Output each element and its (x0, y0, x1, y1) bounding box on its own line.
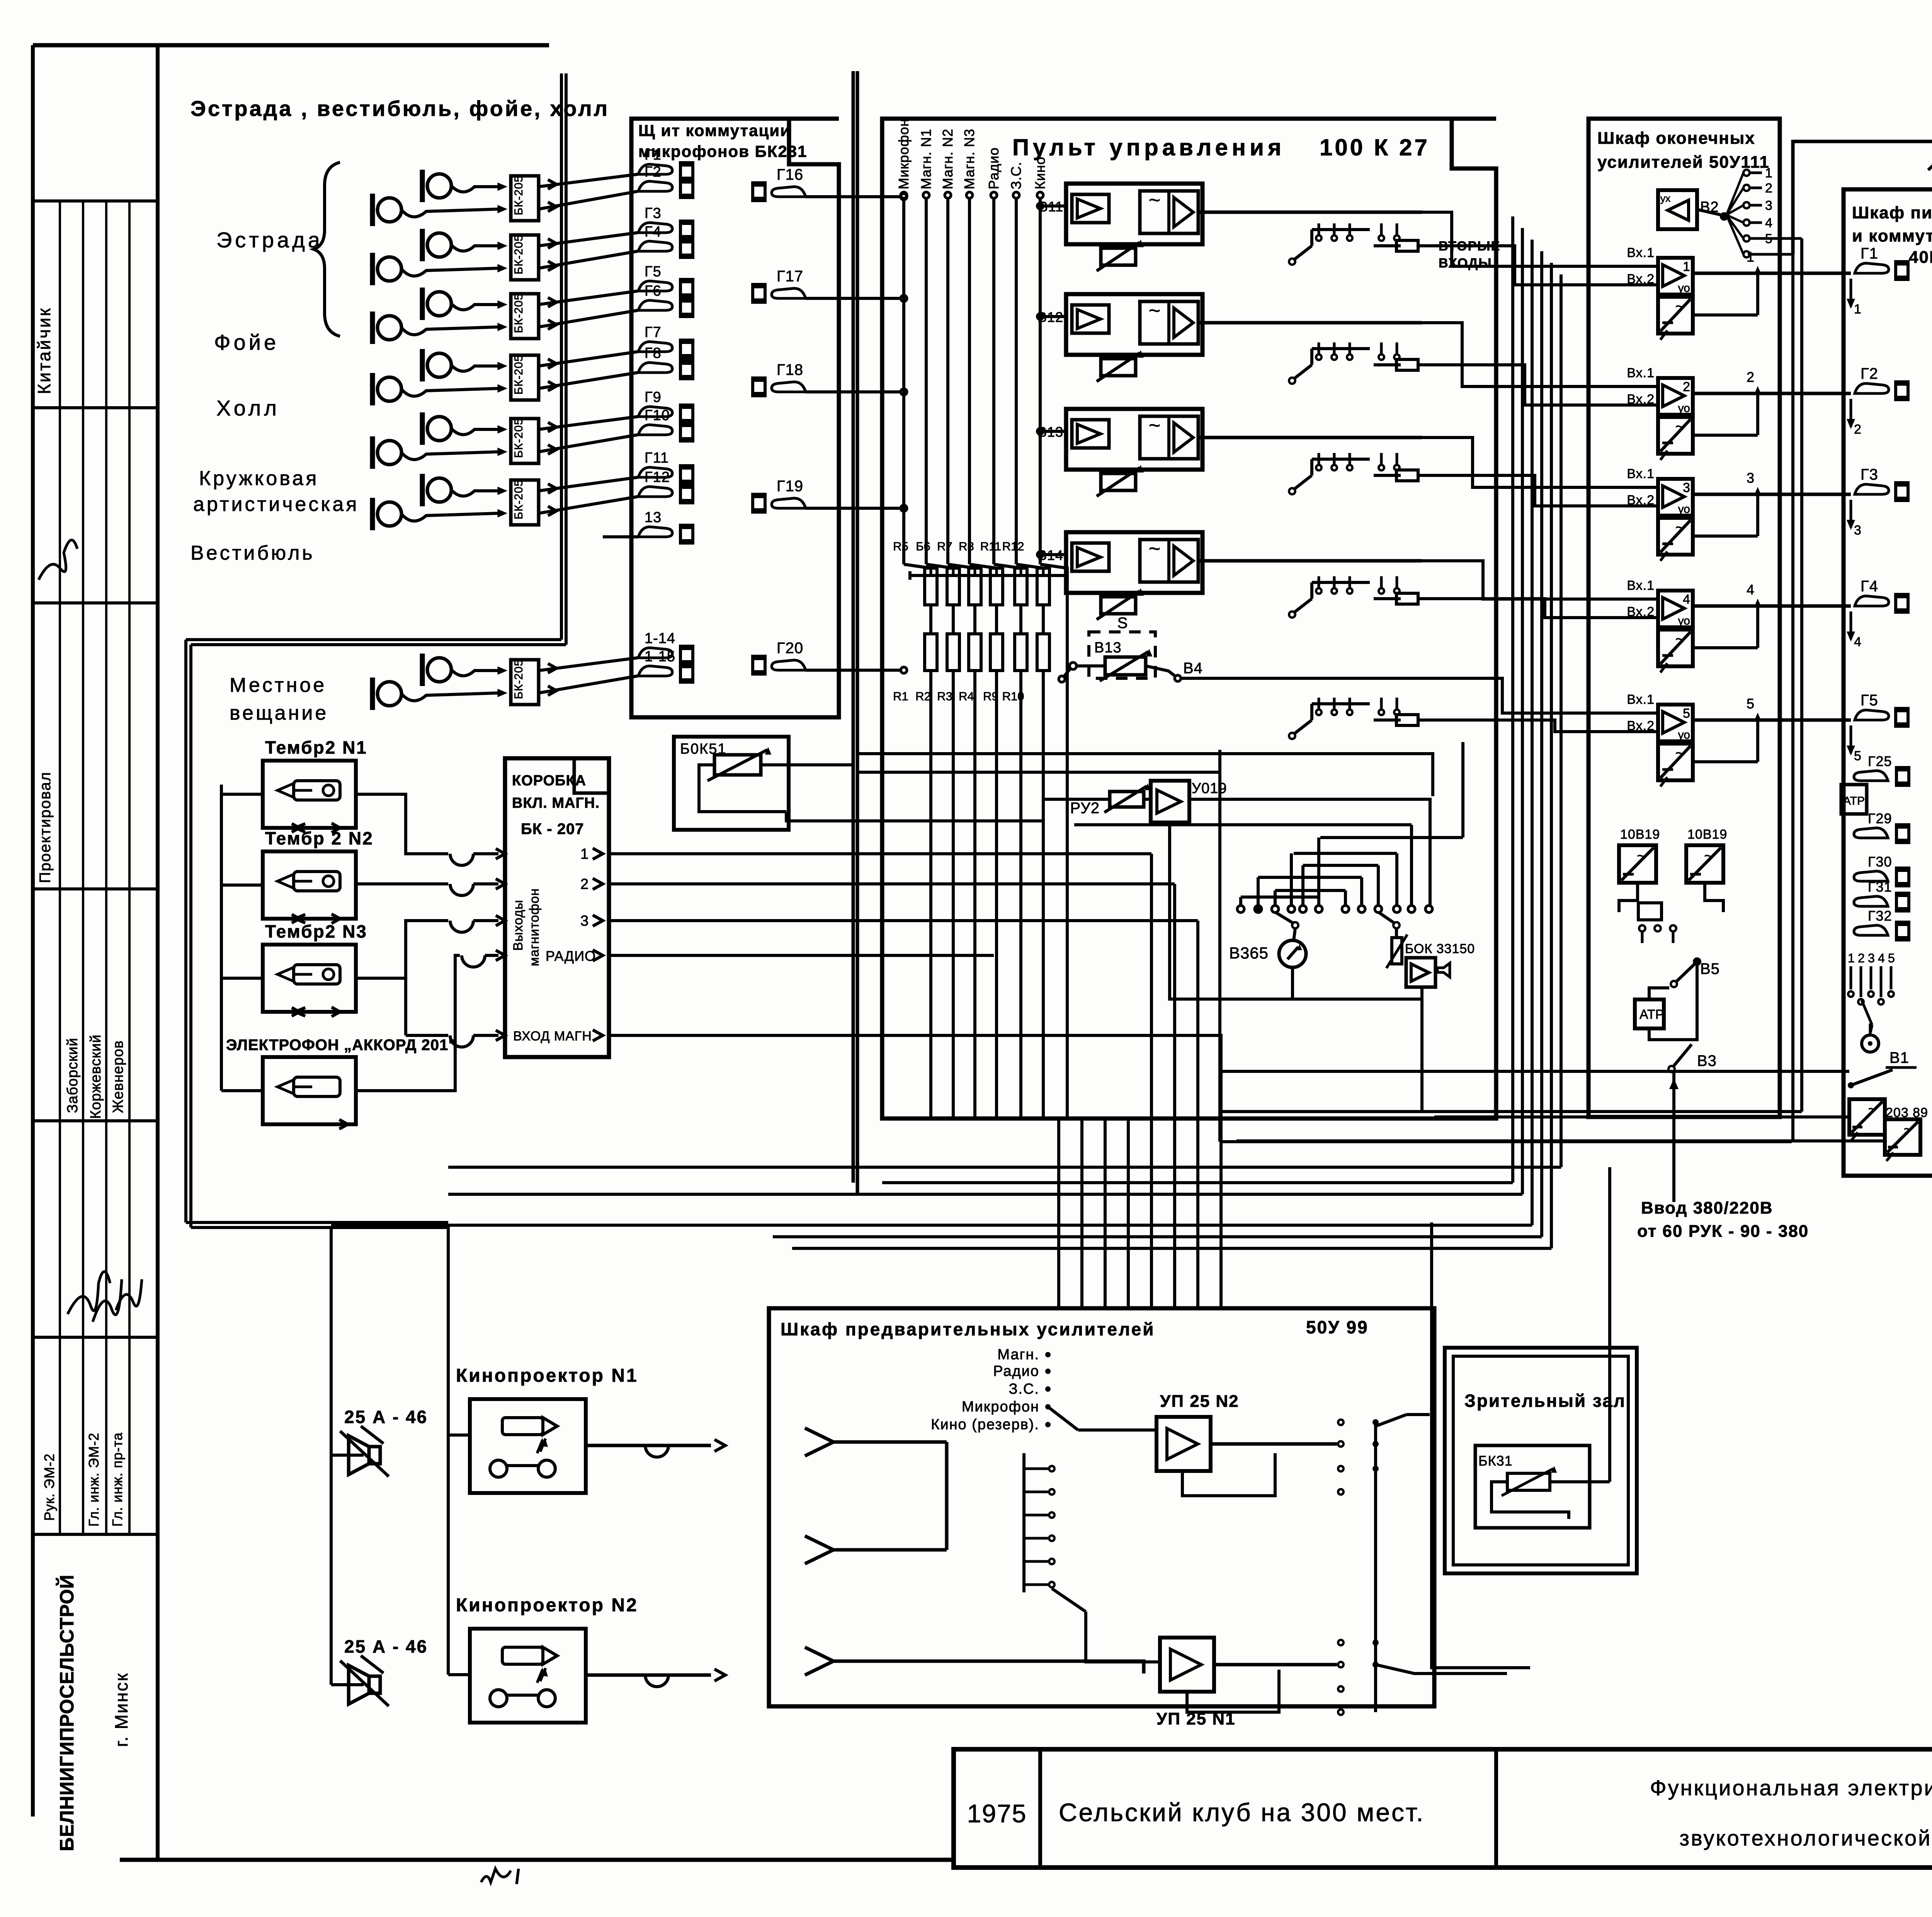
wire BK-205 #1 out2 to Г2 (539, 191, 638, 209)
svg-text:~: ~ (1704, 848, 1713, 865)
svg-text:ВТОРЫЕ: ВТОРЫЕ (1439, 239, 1500, 254)
wire harness horizontal returns (882, 1181, 1513, 1184)
power amplifier stage 3 (1658, 479, 1693, 516)
svg-text:1-15: 1-15 (645, 649, 675, 665)
svg-text:Г16: Г16 (777, 166, 803, 183)
connector Г12 (638, 487, 672, 497)
svg-text:Щ ит коммутации: Щ ит коммутации (638, 121, 791, 140)
wire BK-205 #1 out1 to Г1 (539, 174, 638, 187)
svg-text:Г4: Г4 (645, 224, 662, 240)
svg-text:50У 99: 50У 99 (1306, 1317, 1369, 1337)
connection box BK-205 #5 (511, 419, 539, 463)
transformer 10V19 #2 (1686, 845, 1723, 883)
wire BK-205 #2 out1 to Г3 (539, 233, 638, 246)
variable attenuator BOK33150 (1395, 928, 1398, 938)
svg-text:Зрительный зал: Зрительный зал (1464, 1391, 1626, 1411)
svg-text:усилителей 50У111: усилителей 50У111 (1597, 153, 1770, 172)
microphone pair 5 lower (378, 441, 401, 465)
svg-text:40К-37: 40К-37 (1909, 248, 1932, 267)
svg-text:Радио: Радио (986, 147, 1002, 189)
level control for В13 (1101, 473, 1136, 490)
svg-text:Г32: Г32 (1868, 908, 1892, 924)
wire В11 output (1198, 211, 1310, 214)
svg-text:R4: R4 (959, 690, 974, 703)
wire harness channel outputs to vkh1 (1198, 211, 1422, 214)
connector Г5 (1855, 710, 1889, 720)
variable resistor B13 (1105, 657, 1146, 675)
svg-text:В1: В1 (1889, 1049, 1909, 1066)
stamp column row dividers (33, 199, 158, 203)
common line of resistor network (910, 574, 1066, 577)
box Shkaf okonechnykh usiliteley 50U111 (1588, 119, 1780, 1117)
svg-text:ВКЛ. МАГН.: ВКЛ. МАГН. (512, 795, 600, 811)
svg-text:Г12: Г12 (645, 469, 670, 485)
connector Г20 (751, 655, 767, 676)
stage 2 input wires (1584, 385, 1658, 388)
switch B3 (1673, 1044, 1692, 1067)
svg-text:уо: уо (1678, 402, 1690, 415)
svg-text:Тембр 2 N2: Тембр 2 N2 (265, 828, 374, 848)
wire U019 output (1189, 799, 1430, 906)
svg-text:Тембр2 N3: Тембр2 N3 (265, 921, 367, 941)
svg-text:5: 5 (1765, 232, 1772, 246)
svg-text:Г7: Г7 (645, 324, 662, 340)
label B4 (1146, 666, 1175, 676)
svg-text:Г4: Г4 (1861, 578, 1878, 595)
svg-text:Г5: Г5 (645, 264, 662, 280)
svg-text:Г2: Г2 (1861, 365, 1878, 382)
wire verticals pult bottom to predv box (1057, 1119, 1060, 1308)
wire BOK33150 bottom (1220, 987, 1422, 1112)
tape recorder box Тембр2 N1 (263, 761, 356, 828)
svg-text:БК-205: БК-205 (512, 175, 525, 215)
connector Г6 (638, 300, 672, 310)
svg-text:ВХОДЫ: ВХОДЫ (1439, 256, 1492, 271)
microphone pair 4 upper (427, 353, 451, 377)
svg-text:и коммутации: и коммутации (1852, 226, 1932, 245)
wire Tembr N3 to BK-207 input 3 (356, 921, 448, 978)
connector Г1 (638, 164, 672, 174)
svg-text:Микрофон: Микрофон (962, 1399, 1039, 1415)
input antenna symbols (805, 1428, 833, 1456)
svg-text:микрофонов БК231: микрофонов БК231 (638, 142, 807, 160)
svg-text:10В19: 10В19 (1620, 827, 1660, 842)
wire B0K51 loop (699, 765, 786, 812)
wire UX to B2 (1697, 209, 1721, 215)
svg-text:2: 2 (1747, 369, 1754, 385)
svg-text:S: S (1117, 615, 1128, 632)
connector Г17 (751, 283, 767, 304)
svg-text:~: ~ (1904, 1121, 1912, 1137)
svg-text:1975: 1975 (967, 1799, 1027, 1828)
svg-text:ух: ух (1660, 192, 1670, 204)
UP25 feedback wires (1182, 1453, 1275, 1496)
brace for Estrada group (314, 162, 340, 336)
UP25N1 output (1214, 1663, 1337, 1667)
microphone pair 7 lower (378, 682, 401, 706)
film symbol in Кинопроектор N1 (502, 1418, 543, 1435)
svg-text:Китайчик: Китайчик (34, 307, 54, 394)
connector Г1 (1855, 263, 1889, 273)
svg-text:РУ2: РУ2 (1070, 800, 1100, 817)
meter B365 (1294, 928, 1295, 941)
level control for В11 (1101, 248, 1136, 265)
amplifier UP25 N1 (1160, 1638, 1214, 1692)
svg-text:Магн.: Магн. (997, 1347, 1039, 1363)
ATR box in pitaniya (1841, 785, 1867, 814)
box Кинопроектор N1 (470, 1399, 586, 1493)
svg-text:25 А - 46: 25 А - 46 (344, 1636, 428, 1657)
wire BK-205 #7 out2 to 1-15 (539, 676, 638, 693)
connector 1-14 (638, 648, 672, 658)
box Shkaf predvaritelnykh usiliteley 50U99 (769, 1308, 1434, 1706)
svg-text:Г29: Г29 (1868, 810, 1892, 826)
power supply stage 1 (1658, 297, 1693, 334)
svg-text:магнитофон: магнитофон (527, 888, 542, 966)
svg-text:100 К 27: 100 К 27 (1320, 134, 1430, 160)
channel amplifier block В12 (1066, 294, 1202, 355)
stage 2 output arrow (1756, 390, 1759, 435)
svg-text:Вх.1: Вх.1 (1627, 578, 1655, 593)
svg-text:Г9: Г9 (645, 389, 662, 405)
inner box BK31 (1475, 1445, 1590, 1528)
svg-text:4: 4 (1765, 216, 1772, 230)
speaker 25A-46 #1 (369, 1447, 380, 1464)
wire stub to 13 (603, 535, 638, 538)
svg-text:1-14: 1-14 (645, 630, 675, 647)
svg-text:~: ~ (1149, 189, 1160, 211)
svg-text:вещание: вещание (230, 702, 328, 724)
svg-text:3: 3 (1868, 951, 1875, 965)
connector Г4 (638, 241, 672, 251)
svg-text:1: 1 (1747, 249, 1754, 265)
wire Г19 to mixer bus (806, 507, 901, 510)
svg-text:УП 25 N2: УП 25 N2 (1160, 1392, 1239, 1411)
svg-text:Г25: Г25 (1868, 753, 1892, 769)
power amplifier stage 1 (1658, 258, 1693, 295)
wire to proj2 top (447, 1435, 450, 1675)
svg-text:~: ~ (1637, 848, 1646, 865)
wire bus to selector area (857, 754, 1433, 796)
svg-text:Кино: Кино (1032, 157, 1048, 189)
power amplifier stage 2 (1658, 378, 1693, 415)
svg-text:г. Минск: г. Минск (111, 1672, 131, 1747)
wire mic1 upper to BK-205 (451, 186, 498, 192)
wire mic4 lower to BK-205 (401, 388, 498, 396)
svg-text:Г5: Г5 (1861, 692, 1878, 709)
svg-text:РАДИО: РАДИО (546, 948, 596, 964)
wire to BK-207 vkhod magn (406, 1034, 448, 1037)
svg-text:В5: В5 (1700, 960, 1720, 977)
svg-text:5: 5 (1854, 749, 1861, 763)
wire BK-205 #2 out2 to Г4 (539, 251, 638, 268)
relay contacts under transformers (1619, 883, 1638, 912)
regulator RU2 (1110, 792, 1144, 807)
wire BK-205 #4 out2 to Г8 (539, 373, 638, 388)
svg-text:Магн. N2: Магн. N2 (940, 129, 956, 189)
svg-text:Г31: Г31 (1868, 879, 1892, 895)
svg-text:~: ~ (1149, 538, 1160, 560)
svg-text:3: 3 (1765, 198, 1772, 213)
wires selector to left buses (1240, 897, 1241, 897)
wire Г18 to mixer bus (806, 390, 901, 393)
svg-text:Микрофон: Микрофон (896, 119, 912, 189)
svg-text:4: 4 (1854, 635, 1861, 649)
svg-text:3: 3 (1854, 523, 1861, 538)
svg-text:1: 1 (1683, 259, 1690, 274)
svg-text:Г17: Г17 (777, 268, 803, 285)
svg-text:ВХОД МАГН.: ВХОД МАГН. (513, 1029, 596, 1044)
wire mic2 upper to BK-205 (451, 245, 498, 251)
svg-text:~: ~ (1675, 518, 1685, 536)
svg-text:2: 2 (1765, 181, 1772, 196)
svg-text:У019: У019 (1192, 780, 1227, 797)
arrows under Тембр2 N3 (292, 1008, 299, 1016)
svg-text:5: 5 (1683, 706, 1690, 721)
connector Г30 (1854, 871, 1888, 881)
svg-text:АТР: АТР (1843, 795, 1865, 807)
level control for В14 (1101, 597, 1136, 614)
svg-text:уо: уо (1678, 615, 1690, 627)
wire BK-205 #4 out1 to Г7 (539, 352, 638, 366)
wire mic7 upper to BK-205 (451, 670, 498, 676)
svg-text:Радио: Радио (993, 1363, 1039, 1379)
svg-text:Вх.1: Вх.1 (1627, 692, 1655, 707)
wires BK-207 outputs to pult buses (609, 852, 1151, 855)
svg-text:Вх.1: Вх.1 (1627, 245, 1655, 260)
svg-text:R7: R7 (937, 540, 952, 553)
connection box BK-205 #4 (511, 355, 539, 400)
connection box BK-205 #7 (511, 660, 539, 705)
svg-text:3: 3 (1747, 470, 1754, 486)
handwritten mark bottom (481, 1869, 519, 1884)
svg-text:З.С.: З.С. (1009, 1381, 1039, 1397)
microphone pair 1 lower (378, 198, 401, 222)
svg-text:З.С.: З.С. (1008, 162, 1024, 189)
stage 1 input wires (1584, 265, 1658, 268)
converter 203/89 #2 (1885, 1119, 1920, 1155)
svg-text:Сельский клуб на 300 мест.: Сельский клуб на 300 мест. (1059, 1798, 1425, 1827)
stage 3 output wire to Г3 (1693, 493, 1851, 496)
stamp column outer (31, 45, 35, 1817)
svg-text:БК-205: БК-205 (512, 355, 525, 395)
converter 203/89 #1 (1849, 1099, 1885, 1135)
wire B1 switch line (1221, 1070, 1777, 1073)
svg-text:Тембр2 N1: Тембр2 N1 (265, 737, 367, 758)
svg-text:Г11: Г11 (645, 450, 669, 466)
feed loop lower double horizontal (186, 1221, 448, 1224)
svg-text:2: 2 (580, 876, 588, 892)
svg-text:Магн. N3: Магн. N3 (961, 129, 977, 189)
svg-text:4: 4 (1683, 592, 1690, 607)
wire B0K51 out2 to RU2 (786, 799, 1074, 821)
arrow below Г1 (1850, 279, 1852, 306)
svg-text:Коржевский: Коржевский (88, 1034, 104, 1119)
svg-text:25 А - 46: 25 А - 46 (344, 1407, 428, 1427)
wire bus to В12 (1040, 315, 1066, 318)
svg-text:Г2: Г2 (645, 164, 662, 180)
svg-text:Фойе: Фойе (214, 330, 279, 354)
svg-text:Г1: Г1 (1861, 245, 1878, 262)
switch arm to BOK33150 (1378, 912, 1394, 923)
svg-text:5: 5 (1747, 696, 1754, 712)
second double vertical bus (852, 71, 855, 1183)
resistors upper row (925, 568, 937, 605)
svg-text:4: 4 (1878, 951, 1885, 965)
tembr input bus vertical (220, 785, 223, 1091)
wire Г16 to mixer bus (806, 195, 901, 198)
connector Г10 (638, 425, 672, 435)
svg-text:Г8: Г8 (645, 345, 662, 361)
svg-text:Холл: Холл (216, 396, 280, 420)
connection box BK-205 #2 (511, 235, 539, 280)
selector circles row (1237, 906, 1244, 913)
wire bus to selector area 2 (857, 771, 1220, 774)
svg-text:БК-205: БК-205 (512, 480, 525, 519)
svg-text:1: 1 (1854, 302, 1861, 317)
svg-text:Г3: Г3 (645, 205, 662, 221)
svg-text:от 60 РУК - 90 - 380: от 60 РУК - 90 - 380 (1637, 1222, 1809, 1241)
wire BK-205 #6 out2 to Г12 (539, 497, 638, 513)
tape recorder box Тембр2 N3 (263, 945, 356, 1012)
switch B5 (1671, 981, 1677, 987)
sheet frame bottom border (120, 1858, 954, 1862)
svg-text:~: ~ (1149, 414, 1160, 437)
wire B0K51 out1 to bus (761, 763, 853, 766)
wire bus to В13 (1040, 430, 1066, 433)
wire mic3 lower to BK-205 (401, 327, 498, 335)
connector Г25 (1854, 771, 1888, 781)
wire vvod 380/220 (1672, 1072, 1675, 1202)
svg-text:В3: В3 (1697, 1052, 1717, 1069)
connector Г4 (1855, 596, 1889, 606)
transformer 10V19 #1 (1619, 845, 1656, 883)
box Zritelny zal (double border) (1445, 1348, 1637, 1573)
variable resistor in B0K51 (714, 755, 761, 775)
svg-text:Магн. N1: Магн. N1 (918, 129, 934, 189)
svg-text:Пульт управления: Пульт управления (1012, 134, 1285, 160)
wire speaker 25A-44 feed (1793, 141, 1932, 254)
connection box BK-205 #1 (511, 176, 539, 221)
long wires pitaniya converters to left (1434, 1115, 1849, 1119)
channel amplifier block В11 (1066, 184, 1202, 244)
connector Г2 (1855, 383, 1889, 393)
svg-text:Жевнеров: Жевнеров (110, 1040, 126, 1113)
feed loop double vertical left (184, 640, 187, 1222)
variable resistor BK31 (1507, 1473, 1550, 1490)
wire B4 to stage5 vkh1 (1488, 678, 1584, 713)
power supply stage 2 (1658, 417, 1693, 454)
sheet frame top border (33, 43, 549, 48)
svg-text:R11: R11 (980, 540, 1002, 553)
microphone pair 6 upper (427, 478, 451, 502)
resistors lower row (925, 634, 937, 671)
svg-text:Г6: Г6 (645, 283, 662, 299)
connector Г32 (1854, 925, 1888, 935)
feed loop double horizontal (186, 638, 561, 641)
svg-text:Шкаф питания: Шкаф питания (1852, 203, 1932, 222)
svg-text:~: ~ (1675, 297, 1685, 315)
svg-text:Г10: Г10 (645, 407, 670, 424)
box Shchit kommutatsii mikrofonov BK231 (631, 119, 839, 717)
arrows under Тембр 2 N2 (292, 914, 299, 923)
stage 1 output arrow (1756, 269, 1759, 315)
autotransformer ATR (1635, 999, 1664, 1028)
tape recorder box Тембр 2 N2 (263, 851, 356, 919)
svg-text:2: 2 (1854, 422, 1861, 437)
stage 5 output wire to Г5 (1693, 718, 1851, 722)
svg-text:Рук. ЭМ-2: Рук. ЭМ-2 (41, 1453, 57, 1521)
wire electrophone to BK-207 radio input (356, 955, 460, 1091)
amplifier UP25 N2 (1156, 1417, 1211, 1471)
switch groups vtoryye vkhody (1310, 230, 1313, 246)
channel amplifier block В14 (1066, 532, 1202, 593)
stamp signatures 2 (68, 1272, 110, 1314)
selector crossover horizontals (1320, 836, 1463, 839)
svg-text:10В19: 10В19 (1687, 827, 1727, 842)
wire BK-205 #6 out1 to Г11 (539, 477, 638, 491)
box Кинопроектор N2 (470, 1629, 586, 1723)
svg-text:R8: R8 (959, 540, 974, 553)
selector tall vertical (1074, 823, 1412, 826)
switch arm mic input (1048, 1407, 1078, 1430)
amplifier U019 (1151, 781, 1189, 822)
speaker 25A-46 #2 (369, 1676, 380, 1693)
connector Г19 (751, 493, 767, 514)
wire mic2 lower to BK-205 (401, 268, 498, 276)
wire mic4 upper to BK-205 (451, 365, 498, 371)
wire mic6 lower to BK-205 (401, 513, 498, 521)
svg-text:Функциональная электрическая: Функциональная электрическая схема (1650, 1776, 1932, 1800)
microphone pair 4 lower (378, 377, 401, 401)
svg-text:Гл. инж. пр-та: Гл. инж. пр-та (109, 1432, 125, 1527)
connector Г3 (1855, 484, 1889, 494)
box Pult upravleniya 100K27 (882, 119, 1496, 1119)
stage 5 output arrow (1756, 716, 1759, 762)
svg-text:Г3: Г3 (1861, 466, 1878, 483)
connection box BK-205 #6 (511, 480, 539, 525)
svg-text:Г19: Г19 (777, 478, 803, 495)
box Shkaf pitaniya i kommutatsii 40K-37 (1844, 189, 1932, 1176)
svg-text:ЭЛЕКТРОФОН „АККОРД 201": ЭЛЕКТРОФОН „АККОРД 201" (226, 1037, 456, 1054)
svg-text:Г18: Г18 (777, 361, 803, 378)
svg-text:2: 2 (1858, 951, 1865, 965)
svg-text:R12: R12 (1002, 540, 1024, 553)
svg-text:БК-205: БК-205 (512, 235, 525, 274)
microphone pair 1 upper (427, 174, 451, 198)
wire B2 contacts vertical returns (1422, 1110, 1802, 1113)
wire mic3 upper to BK-205 (451, 304, 498, 310)
svg-text:Кружковая: Кружковая (199, 467, 319, 490)
stage 3 input wires (1584, 486, 1658, 489)
svg-text:Местное: Местное (230, 674, 327, 696)
wire mic6 upper to BK-205 (451, 490, 498, 496)
svg-text:~: ~ (1149, 300, 1160, 322)
wire mic7 lower to BK-205 (401, 693, 498, 701)
connector Г18 (751, 376, 767, 397)
film symbol in Кинопроектор N2 (502, 1647, 543, 1664)
svg-text:Б6: Б6 (916, 540, 930, 553)
svg-text:R5: R5 (893, 540, 908, 553)
wire projectors feed vertical 1 (330, 1226, 333, 1685)
svg-text:артистическая: артистическая (193, 493, 359, 516)
svg-text:5: 5 (1888, 951, 1895, 965)
svg-text:~: ~ (1868, 1101, 1877, 1117)
connector Г11 (638, 467, 672, 477)
svg-text:R9: R9 (983, 690, 998, 703)
wire bus to В14 (1040, 553, 1066, 556)
svg-text:Кино (резерв).: Кино (резерв). (931, 1416, 1039, 1433)
